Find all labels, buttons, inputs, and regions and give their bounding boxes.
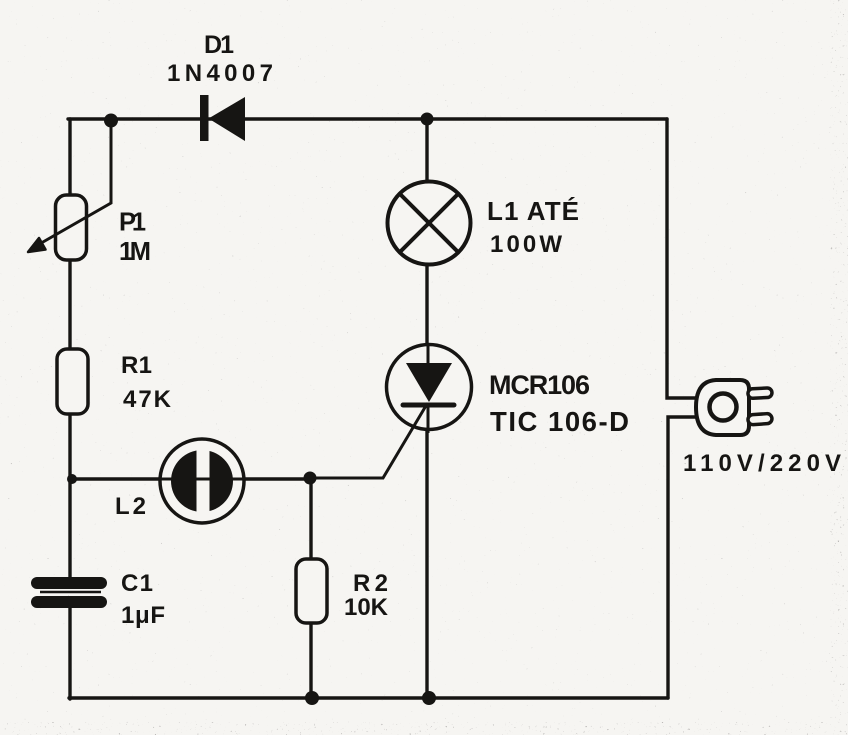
svg-text:MCR106: MCR106 xyxy=(489,370,590,400)
svg-text:100W: 100W xyxy=(490,231,562,258)
svg-text:TIC 106-D: TIC 106-D xyxy=(490,406,629,437)
svg-text:1M: 1M xyxy=(119,238,151,266)
svg-text:D1: D1 xyxy=(204,31,234,59)
svg-text:L1 ATÉ: L1 ATÉ xyxy=(487,196,579,226)
svg-text:C1: C1 xyxy=(121,570,153,597)
svg-text:47K: 47K xyxy=(123,386,172,413)
svg-text:10K: 10K xyxy=(344,594,389,621)
svg-text:R1: R1 xyxy=(121,352,152,379)
svg-text:P1: P1 xyxy=(119,209,146,237)
svg-text:110V/220V: 110V/220V xyxy=(683,450,841,477)
svg-text:1μF: 1μF xyxy=(121,602,165,629)
